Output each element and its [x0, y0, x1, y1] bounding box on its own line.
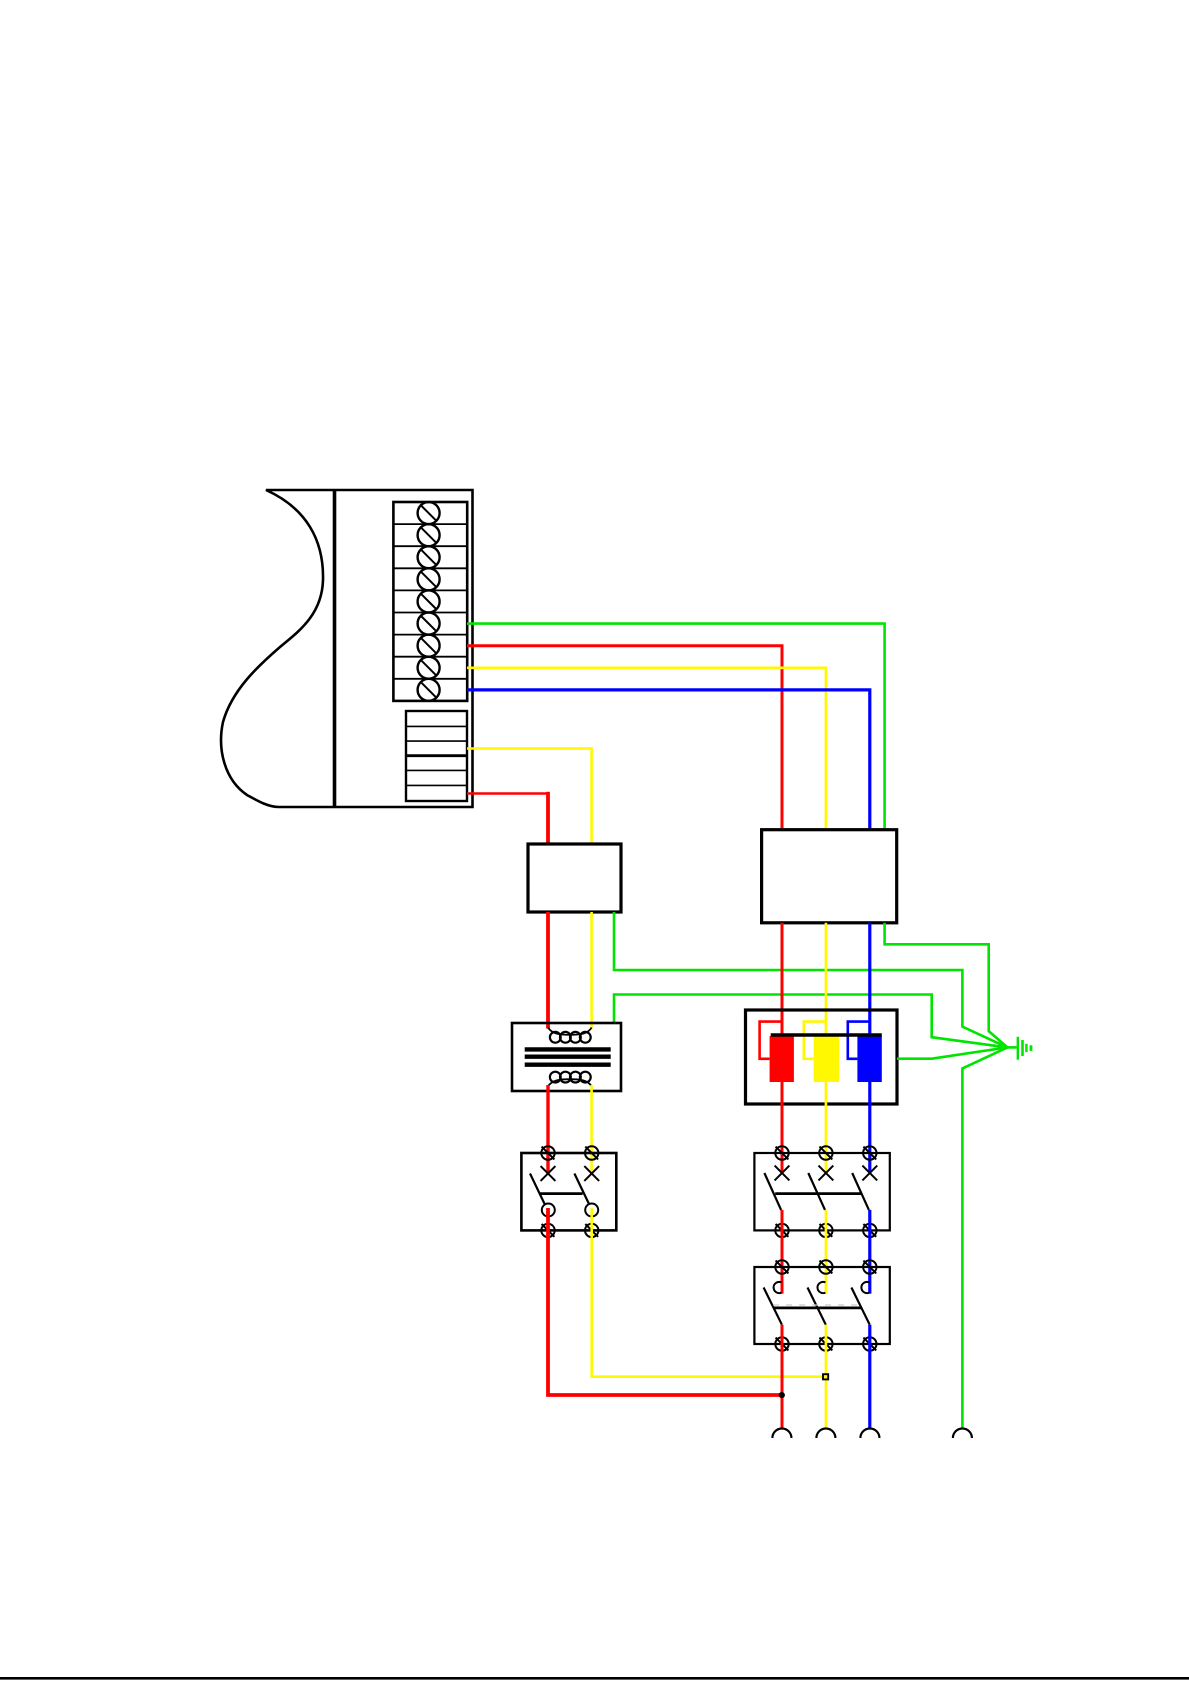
load terminal arc x825 — [816, 1429, 835, 1439]
wire green earth C (CT box to ground node) — [885, 923, 1008, 1048]
transformer T1 body — [512, 1023, 621, 1091]
wire blue (K1 to load terminal) — [868, 1325, 871, 1429]
fuse cartridge blue L3 — [857, 1036, 881, 1082]
breaker Q1 pole 2 blade — [574, 1174, 589, 1205]
contactor K1 pole 3 blade — [851, 1288, 869, 1325]
wire blue (Q2 to contactor K1) — [868, 1210, 871, 1294]
page footer line — [0, 1677, 1189, 1680]
wire red (transformer to breaker Q1) — [546, 1085, 549, 1173]
CT box U1 — [762, 830, 897, 923]
junction square yellow node — [823, 1374, 828, 1379]
circuit breaker Q2 body — [754, 1153, 889, 1230]
terminal screw 7 — [418, 635, 440, 657]
breaker Q1 fixed contacts — [542, 1204, 598, 1217]
wire red (Q1 output run) — [548, 1208, 782, 1395]
wire yellow (fuse bank to breaker Q2) — [825, 1082, 828, 1173]
terminal screw 6 — [418, 613, 440, 635]
wire yellow (CT box to fuse bank) — [825, 923, 828, 1036]
wire red (fuse box to transformer) — [546, 912, 550, 1029]
transformer T1 secondary winding — [548, 1072, 592, 1087]
terminal screw 2 — [418, 524, 440, 546]
fuse cartridge red L1 — [770, 1036, 794, 1082]
wire red (Q2 to contactor K1) — [781, 1210, 784, 1294]
breaker Q1 contact crosses — [541, 1166, 600, 1181]
contactor K1 pole 1 blade — [764, 1288, 782, 1325]
wire yellow (Q2 to contactor K1) — [825, 1210, 828, 1294]
wire blue (CT box to fuse bank) — [868, 923, 871, 1036]
wire yellow (transformer to breaker Q1) — [590, 1085, 593, 1173]
wire yellow phase L2 (meter to CT box) — [467, 668, 826, 830]
terminal screw 4 — [418, 568, 440, 590]
breaker Q2 terminals — [775, 1146, 876, 1237]
wire green earth A (fuse box to ground node) — [614, 912, 1007, 1047]
circuit breaker Q1 body — [521, 1153, 616, 1230]
earth ground symbol — [1007, 1037, 1031, 1060]
contactor K1 linkage dashes — [773, 1304, 861, 1306]
junction dot red node — [779, 1392, 785, 1398]
wire blue (fuse bank to breaker Q2) — [868, 1082, 871, 1173]
wire blue phase L3 (meter to CT box) — [467, 690, 870, 830]
terminal screw 1 — [418, 502, 440, 524]
wire green earth B (transformer to ground node) — [614, 995, 1007, 1048]
contactor K1 tie bar — [773, 1307, 861, 1310]
wire yellow (fuse box to transformer) — [590, 912, 593, 1029]
wire yellow (K1 to load terminal) — [825, 1325, 828, 1429]
wire red aux horizontal (meter to fuse box) — [467, 792, 548, 795]
load terminal arc x962 — [953, 1429, 972, 1439]
fuse box F1 — [528, 844, 621, 912]
terminal screw 8 — [418, 657, 440, 679]
contactor K1 body — [754, 1267, 889, 1344]
contactor K1 terminals — [775, 1260, 876, 1350]
meter auxiliary terminal block — [406, 711, 467, 801]
wire red (fuse bank to breaker Q2) — [781, 1082, 784, 1173]
wire yellow fuse jumper — [804, 1022, 826, 1059]
wire red fuse jumper — [760, 1022, 782, 1059]
contactor K1 pole 2 blade — [808, 1288, 826, 1325]
terminal screw 9 — [418, 679, 440, 701]
terminal screw 3 — [418, 546, 440, 568]
contactor K1 contact arcs — [774, 1282, 870, 1293]
meter internal divider — [333, 490, 337, 807]
wire blue fuse jumper — [848, 1022, 870, 1059]
fuse bank body — [746, 1010, 898, 1104]
breaker Q2 pole 1 blade — [764, 1173, 781, 1210]
wire red phase L1 (meter to CT box) — [467, 646, 782, 830]
wire green phase-earth (meter to CT box) — [467, 624, 885, 830]
transformer T1 primary winding — [548, 1028, 592, 1043]
wire red (K1 to load terminal) — [781, 1325, 784, 1429]
kWh meter body outline — [221, 490, 472, 807]
wire green earth D (fuse bank to ground node) — [897, 1047, 1007, 1058]
breaker Q1 pole 1 blade — [530, 1174, 545, 1205]
breaker Q2 contact crosses — [775, 1166, 878, 1181]
breaker Q2 tie bar — [775, 1192, 861, 1195]
load terminal arc x869 — [860, 1429, 879, 1439]
wire green earth E (ground node to bottom terminal) — [962, 1047, 1007, 1428]
wire yellow aux (meter to fuse box) — [467, 749, 592, 845]
load terminal arc x781 — [772, 1429, 791, 1439]
breaker Q2 pole 3 blade — [852, 1173, 869, 1210]
meter terminal strip — [393, 502, 467, 701]
breaker Q2 pole 2 blade — [808, 1173, 825, 1210]
terminal screw 5 — [418, 590, 440, 612]
transformer T1 core laminations — [525, 1049, 611, 1064]
fuse cartridge yellow L2 — [814, 1036, 839, 1082]
wire red (CT box to fuse bank) — [781, 923, 784, 1036]
wire yellow (Q1 output run) — [592, 1208, 826, 1377]
fuse bank bus bar — [771, 1033, 882, 1036]
wire red aux vertical (to fuse box) — [546, 792, 550, 844]
breaker Q1 tie bar — [539, 1192, 583, 1195]
breaker Q1 terminals — [541, 1146, 598, 1237]
